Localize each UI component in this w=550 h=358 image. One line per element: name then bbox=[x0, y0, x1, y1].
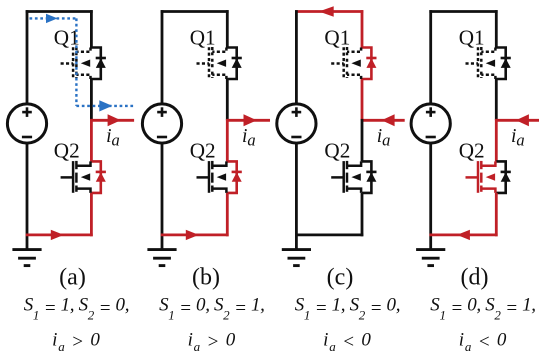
Q2 (d) gate lead bbox=[466, 176, 479, 179]
transistor Q1 (a) with body diode bbox=[61, 47, 106, 79]
Q1 (b) body diode cathode bar bbox=[232, 57, 242, 60]
svg-text:(c): (c) bbox=[327, 265, 354, 291]
wire: panel (a) Q1 source to output node bbox=[90, 79, 93, 120]
Q1 (c) gate bar bbox=[342, 47, 345, 79]
Q2 (d) body diode cathode bar bbox=[501, 171, 511, 174]
Q1 (d) body diode branch wire bbox=[496, 48, 505, 80]
wire: panel (d) bottom return, ground junction to Q2 source leg bbox=[429, 233, 497, 236]
Q1 (a) body diode branch wire bbox=[91, 48, 100, 80]
current arrow on bottom return (d) bbox=[457, 230, 470, 240]
Q2 (b) body/source arrow bbox=[217, 173, 226, 180]
Q1 (b) gate bar bbox=[208, 47, 211, 79]
Q2 (d) source lead bbox=[481, 189, 495, 193]
Q2 (b) gate bar bbox=[208, 161, 211, 193]
current arrow on bottom return (b) bbox=[186, 230, 199, 240]
Q1 (d) body/source arrow bbox=[486, 60, 495, 67]
Q2 (c) drain lead bbox=[347, 161, 361, 165]
wire: panel (d) Q2 source to bottom return bbox=[495, 193, 498, 236]
wire: panel (b) top rail bbox=[161, 10, 229, 13]
svg-text:Q1: Q1 bbox=[459, 25, 485, 49]
Q2 (a) body diode branch wire bbox=[91, 161, 100, 193]
svg-text:ia: ia bbox=[511, 126, 525, 150]
voltage source V (d) bbox=[411, 104, 450, 143]
Q1 (b) gate lead bbox=[197, 62, 210, 65]
wire: panel (a) right vertical, rail to Q1 drain bbox=[90, 10, 93, 47]
Q2 (c) source lead bbox=[347, 189, 361, 193]
Q1 (c) body diode branch wire bbox=[362, 48, 371, 80]
Q2 (d) channel segments bbox=[480, 161, 483, 169]
wire: panel (c) Q2 source to bottom return bbox=[361, 193, 364, 236]
current arrow on bottom return (a) bbox=[51, 230, 64, 240]
svg-text:Q1: Q1 bbox=[324, 25, 350, 49]
voltage source V (b) bbox=[142, 104, 181, 143]
svg-text:ia: ia bbox=[377, 126, 391, 150]
Q1 (c) drain lead bbox=[347, 48, 361, 52]
ground (c) bbox=[282, 250, 311, 266]
Q2 (c) body/source arrow bbox=[351, 173, 360, 180]
Q2 (b) body diode anode triangle bbox=[232, 172, 242, 182]
voltage source V (c) bbox=[277, 104, 316, 143]
voltage source V (a) bbox=[7, 104, 46, 143]
Q1 (a) body/source arrow bbox=[81, 60, 90, 67]
commutation path (blue dashed) through Q1 channel bbox=[30, 14, 134, 112]
current arrow on top rail (c) bbox=[319, 6, 334, 16]
wire: panel (a) top rail bbox=[26, 10, 93, 13]
Q2 (d) body diode branch wire bbox=[496, 161, 505, 193]
Q2 (a) drain lead bbox=[76, 161, 90, 165]
svg-text:(d): (d) bbox=[461, 265, 489, 291]
Q1 (b) channel segments bbox=[211, 47, 214, 55]
Q2 (a) body diode cathode bar bbox=[96, 171, 106, 174]
svg-text:Q2: Q2 bbox=[459, 138, 485, 162]
wire: panel (b) left vertical, rail to source + bbox=[161, 10, 164, 104]
Q2 (d) body diode anode triangle bbox=[501, 172, 511, 182]
wire: panel (d) right vertical, rail to Q1 drain bbox=[495, 10, 498, 47]
wire: panel (b) bottom return, ground junction to Q2 source leg bbox=[161, 233, 229, 236]
Q2 (b) drain lead bbox=[212, 161, 226, 165]
ground (a) bbox=[12, 250, 41, 266]
Q2 (a) source lead bbox=[76, 189, 90, 193]
wire: panel (b) Q2 source to bottom return bbox=[226, 193, 229, 236]
svg-text:ia: ia bbox=[242, 126, 256, 150]
Q1 (d) source lead bbox=[481, 75, 495, 79]
Q1 (b) body diode branch wire bbox=[227, 48, 236, 80]
transistor Q1 (b) with body diode bbox=[197, 47, 242, 79]
wire: panel (d) left vertical, rail to source + bbox=[429, 10, 432, 104]
wire: panel (d) top rail bbox=[429, 10, 497, 13]
Q1 (a) gate bar bbox=[72, 47, 75, 79]
svg-text:Q2: Q2 bbox=[54, 138, 80, 162]
Q2 (d) body/source arrow bbox=[486, 173, 495, 180]
svg-text:(a): (a) bbox=[59, 265, 86, 291]
wire: panel (d) output node to Q2 drain bbox=[495, 119, 498, 161]
wire: panel (c) top rail bbox=[295, 10, 363, 13]
current arrow ia (c) bbox=[382, 114, 395, 126]
wire: panel (a) Q2 source to bottom return bbox=[90, 193, 93, 236]
current arrow ia (a) bbox=[108, 114, 121, 126]
Q2 (a) channel segments bbox=[75, 161, 78, 169]
Q1 (d) drain lead bbox=[481, 48, 495, 52]
wire: panel (d) left vertical, source - to ground junction bbox=[429, 143, 432, 249]
Q1 (a) source lead bbox=[76, 75, 90, 79]
Q2 (b) channel segments bbox=[211, 161, 214, 169]
Q2 (a) gate lead bbox=[61, 176, 74, 179]
svg-text:ia: ia bbox=[106, 126, 120, 150]
Q2 (a) gate bar bbox=[72, 161, 75, 193]
wire: panel (a) left vertical, source - to ground junction bbox=[26, 143, 29, 249]
wire: panel (a) left vertical, rail to source + bbox=[26, 10, 29, 104]
wire: output branch ia (a) bbox=[91, 119, 134, 122]
Q1 (d) body diode cathode bar bbox=[501, 57, 511, 60]
Q1 (a) drain lead bbox=[76, 48, 90, 52]
Q2 (a) body/source arrow bbox=[81, 173, 90, 180]
wire: panel (a) bottom return, ground junction to Q2 source leg bbox=[26, 233, 93, 236]
Q1 (c) gate lead bbox=[331, 62, 344, 65]
wire: panel (c) left vertical, source - to ground junction bbox=[295, 143, 298, 249]
Q1 (d) gate bar bbox=[477, 47, 480, 79]
Q1 (d) body diode anode triangle bbox=[501, 58, 511, 68]
Q2 (d) drain lead bbox=[481, 161, 495, 165]
Q1 (c) channel segments bbox=[346, 47, 349, 55]
Q2 (b) body diode cathode bar bbox=[232, 171, 242, 174]
Q2 (b) body diode branch wire bbox=[227, 161, 236, 193]
Q2 (b) gate lead bbox=[197, 176, 210, 179]
ground (b) bbox=[147, 250, 176, 266]
Q2 (c) gate lead bbox=[331, 176, 344, 179]
transistor Q2 (b) with body diode bbox=[197, 161, 242, 193]
ground (d) bbox=[416, 250, 445, 266]
Q1 (c) body/source arrow bbox=[351, 60, 360, 67]
Q1 (a) channel segments bbox=[75, 47, 78, 55]
Q2 (c) body diode branch wire bbox=[362, 161, 371, 193]
Q1 (c) body diode anode triangle bbox=[366, 58, 376, 68]
transistor Q2 (d) with body diode bbox=[466, 161, 511, 193]
Q2 (a) body diode anode triangle bbox=[96, 172, 106, 182]
transistor Q2 (a) with body diode bbox=[61, 161, 106, 193]
wire: panel (c) Q1 source to output node bbox=[361, 79, 364, 120]
wire: output branch ia (d) bbox=[496, 119, 539, 122]
Q1 (d) channel segments bbox=[480, 47, 483, 55]
svg-text:(b): (b) bbox=[192, 265, 220, 291]
svg-text:Q2: Q2 bbox=[324, 138, 350, 162]
transistor Q1 (d) with body diode bbox=[466, 47, 511, 79]
Q2 (c) channel segments bbox=[346, 161, 349, 169]
wire: panel (d) Q1 source to output node bbox=[495, 79, 498, 120]
wire: panel (c) bottom return, ground junction to Q2 source leg bbox=[295, 233, 363, 236]
Q1 (a) gate lead bbox=[61, 62, 74, 65]
Q2 (c) gate bar bbox=[342, 161, 345, 193]
Q2 (c) body diode cathode bar bbox=[366, 171, 376, 174]
current arrow ia (d) bbox=[516, 114, 529, 126]
Q1 (c) source lead bbox=[347, 75, 361, 79]
Q2 (c) body diode anode triangle bbox=[366, 172, 376, 182]
svg-text:Q2: Q2 bbox=[190, 138, 216, 162]
wire: panel (c) left vertical, rail to source + bbox=[295, 10, 298, 104]
Q1 (c) body diode cathode bar bbox=[366, 57, 376, 60]
Q1 (b) body diode anode triangle bbox=[232, 58, 242, 68]
Q1 (a) body diode anode triangle bbox=[96, 58, 106, 68]
current arrow ia (b) bbox=[244, 114, 257, 126]
wire: panel (c) output node to Q2 drain bbox=[361, 119, 364, 161]
Q2 (d) gate bar bbox=[477, 161, 480, 193]
svg-text:Q1: Q1 bbox=[190, 25, 216, 49]
Q1 (b) drain lead bbox=[212, 48, 226, 52]
transistor Q2 (c) with body diode bbox=[331, 161, 376, 193]
wire: output branch ia (c) bbox=[362, 119, 405, 122]
wire: output branch ia (b) bbox=[227, 119, 270, 122]
Q1 (d) gate lead bbox=[466, 62, 479, 65]
wire: panel (b) output node to Q2 drain bbox=[226, 119, 229, 161]
Q1 (b) body/source arrow bbox=[217, 60, 226, 67]
Q1 (a) body diode cathode bar bbox=[96, 57, 106, 60]
wire: panel (b) Q1 source to output node bbox=[226, 79, 229, 120]
wire: panel (a) output node to Q2 drain bbox=[90, 119, 93, 161]
wire: panel (b) right vertical, rail to Q1 drain bbox=[226, 10, 229, 47]
transistor Q1 (c) with body diode bbox=[331, 47, 376, 79]
wire: panel (c) right vertical, rail to Q1 drain bbox=[361, 10, 364, 47]
Q2 (b) source lead bbox=[212, 189, 226, 193]
wire: panel (b) left vertical, source - to ground junction bbox=[161, 143, 164, 249]
Q1 (b) source lead bbox=[212, 75, 226, 79]
